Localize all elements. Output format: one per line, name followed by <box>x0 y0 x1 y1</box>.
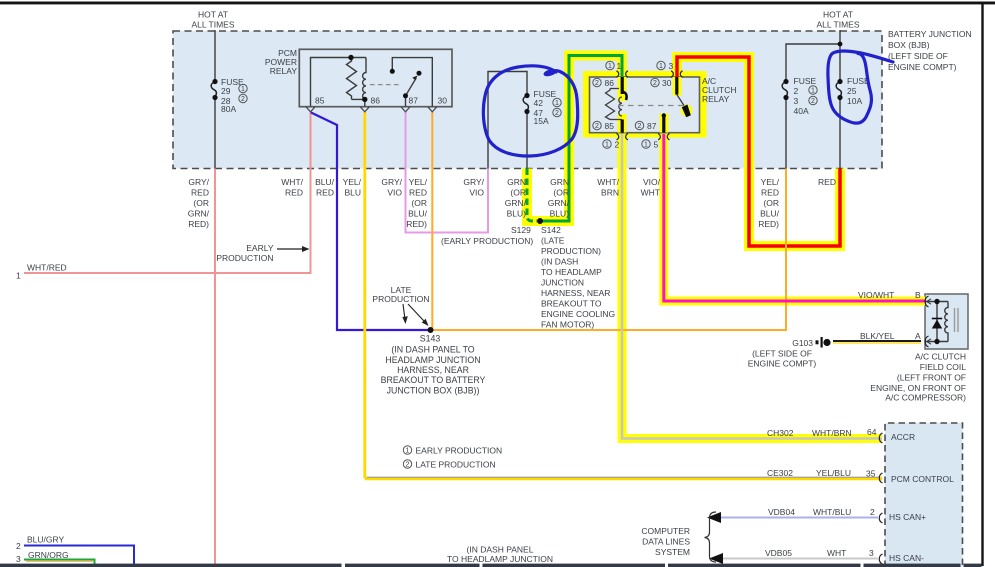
svg-text:2: 2 <box>653 80 657 87</box>
svg-text:ENGINE COMPT): ENGINE COMPT) <box>888 62 957 72</box>
wire: WHT VDB05 to HS CAN- <box>722 558 878 560</box>
relay K2 A/C clutch relay internals <box>606 71 693 140</box>
node: fixed contact left <box>390 69 395 74</box>
resistor in relay K1 coil <box>347 58 357 99</box>
wire: red RED fuse 25 to A/C relay pin 3 <box>677 57 840 246</box>
highlight: green wire path fuse42 to A/C relay pin 1 <box>527 56 622 222</box>
wire: GRN/ORG circuit 3 <box>24 560 95 565</box>
svg-text:(LEFT FRONT OF: (LEFT FRONT OF <box>897 373 966 383</box>
inductor in relay K1 coil <box>363 58 366 100</box>
svg-text:A: A <box>915 331 921 341</box>
svg-text:BRN: BRN <box>601 188 619 198</box>
svg-text:HS CAN+: HS CAN+ <box>889 512 926 522</box>
svg-text:GRN: GRN <box>507 177 526 187</box>
wire: YEL/RED (OR BLU/RED) from PCM relay pin 30 to S143 to fuse 2/3 <box>431 112 433 331</box>
svg-text:RED: RED <box>761 188 779 198</box>
wire: pin 30 internal to fixed contact <box>392 58 432 107</box>
svg-text:86: 86 <box>371 96 381 106</box>
svg-text:HARNESS, NEAR: HARNESS, NEAR <box>397 365 469 375</box>
svg-text:YEL/BLU: YEL/BLU <box>816 468 851 478</box>
svg-text:85: 85 <box>315 96 325 106</box>
svg-text:1: 1 <box>605 142 609 149</box>
svg-text:VIO: VIO <box>469 188 484 198</box>
battery junction box BJB (dashed, light blue) <box>173 31 882 169</box>
svg-text:(OR: (OR <box>553 188 569 198</box>
svg-text:GRY/: GRY/ <box>188 177 209 187</box>
svg-text:2: 2 <box>555 110 559 117</box>
fuse F25 element <box>836 82 841 98</box>
svg-text:(LEFT SIDE OF: (LEFT SIDE OF <box>752 349 812 359</box>
svg-text:HOT AT: HOT AT <box>823 10 853 20</box>
svg-text:1: 1 <box>555 100 559 107</box>
svg-text:BLU/: BLU/ <box>408 209 428 219</box>
svg-text:BLU/: BLU/ <box>315 177 335 187</box>
svg-text:GRY/: GRY/ <box>381 177 402 187</box>
svg-text:WHT/: WHT/ <box>597 177 619 187</box>
svg-text:GRN/: GRN/ <box>548 198 570 208</box>
svg-text:42: 42 <box>534 98 544 108</box>
svg-text:RED: RED <box>316 188 334 198</box>
wire: hot feed into fuse 25 <box>839 30 841 81</box>
svg-text:WHT/BLU: WHT/BLU <box>813 507 851 517</box>
fuse F29 terminals <box>212 79 217 84</box>
svg-text:BLU): BLU) <box>507 209 527 219</box>
pin 1/86 stub <box>621 77 624 94</box>
wire: GRN (OR GRN/BLU) dashed early production from fuse 42 to S142 <box>527 169 537 222</box>
node: hot bus junction <box>838 42 843 47</box>
svg-text:RED): RED) <box>406 219 427 229</box>
switch arm arrowhead K2 (bold) <box>682 105 691 118</box>
svg-text:30: 30 <box>438 96 448 106</box>
svg-text:1: 1 <box>406 448 410 455</box>
svg-text:BREAKOUT TO: BREAKOUT TO <box>541 299 602 309</box>
arrow: VDB05 direction triangle <box>709 553 723 564</box>
svg-text:PRODUCTION): PRODUCTION) <box>541 246 601 256</box>
svg-text:YEL/: YEL/ <box>409 177 428 187</box>
arrow: early production pointer <box>277 248 303 250</box>
svg-text:1: 1 <box>16 271 21 281</box>
svg-text:BLU): BLU) <box>550 209 570 219</box>
highlight: red wire path fuse25 to A/C relay pin 3 <box>677 57 840 246</box>
svg-text:JUNCTION: JUNCTION <box>541 278 584 288</box>
wire: fuse 2/3 bottom stub <box>785 98 787 169</box>
pin 3/30 stub <box>675 77 678 95</box>
svg-text:RELAY: RELAY <box>270 66 298 76</box>
svg-text:VIO/: VIO/ <box>643 177 661 187</box>
wire: hot feed bus to fuse 2/3 <box>786 44 840 81</box>
svg-text:(EARLY PRODUCTION): (EARLY PRODUCTION) <box>441 236 533 246</box>
svg-text:ENGINE COOLING: ENGINE COOLING <box>541 309 615 319</box>
node: fixed contact right <box>417 71 422 76</box>
node: switch pivot pin 87 <box>403 93 408 98</box>
svg-text:86: 86 <box>605 78 615 88</box>
ground G103 symbol <box>816 337 831 348</box>
svg-text:SYSTEM: SYSTEM <box>655 547 690 557</box>
svg-text:(OR: (OR <box>763 198 779 208</box>
svg-text:TO HEADLAMP JUNCTION: TO HEADLAMP JUNCTION <box>447 554 553 564</box>
svg-text:BOX (BJB): BOX (BJB) <box>888 40 930 50</box>
svg-text:RED: RED <box>285 188 303 198</box>
splice S143 <box>428 327 434 333</box>
svg-text:HS CAN-: HS CAN- <box>889 553 924 563</box>
fuse F25 terminals <box>837 79 842 84</box>
svg-text:EARLY PRODUCTION: EARLY PRODUCTION <box>416 446 503 456</box>
pen circle around fuse 42 <box>483 66 577 156</box>
svg-text:(OR: (OR <box>411 198 427 208</box>
connector arcs at ACCR box pins <box>879 433 882 564</box>
actuation dashed line K2 <box>618 105 686 107</box>
svg-text:RED: RED <box>818 177 836 187</box>
brace: computer data lines system <box>705 512 717 562</box>
svg-text:2: 2 <box>794 86 799 96</box>
svg-text:VDB05: VDB05 <box>765 548 792 558</box>
pin arrows K1 (85 86 87 30) <box>306 107 437 112</box>
wire: WHT/BLU VDB04 to HS CAN+ <box>720 517 878 519</box>
connector arcs pins B and A <box>925 296 928 307</box>
wire: pin 87 internal stub <box>405 98 407 107</box>
svg-text:BLU/: BLU/ <box>760 209 780 219</box>
svg-text:(IN DASH: (IN DASH <box>541 257 578 267</box>
svg-text:30: 30 <box>662 78 672 88</box>
svg-text:2: 2 <box>16 541 21 551</box>
svg-text:2: 2 <box>595 80 599 87</box>
svg-text:GRN/: GRN/ <box>505 198 527 208</box>
highlight: WHT/BRN wire path A/C relay pin 2 to ACCR <box>622 134 882 439</box>
svg-text:S143: S143 <box>420 334 441 344</box>
coil top hook <box>622 92 626 101</box>
svg-text:1: 1 <box>617 61 622 71</box>
svg-text:64: 64 <box>867 427 877 437</box>
svg-text:2: 2 <box>595 123 599 130</box>
svg-text:A/C CLUTCH: A/C CLUTCH <box>915 352 966 362</box>
svg-text:15A: 15A <box>534 116 549 126</box>
svg-text:ALL TIMES: ALL TIMES <box>817 20 860 30</box>
svg-text:5: 5 <box>654 140 659 150</box>
yellow fill behind pin stubs <box>618 77 693 133</box>
wire: fuse 42 bottom stub <box>526 112 528 169</box>
svg-text:25: 25 <box>847 86 857 96</box>
pin 2/85 stub <box>621 120 624 133</box>
wire: BLU/RED from PCM relay pin 85 to S143 <box>311 113 429 331</box>
svg-text:VDB04: VDB04 <box>768 507 795 517</box>
wire: BLU/GRY circuit 2 <box>24 546 134 565</box>
A/C clutch field coil box <box>925 294 968 349</box>
svg-text:40A: 40A <box>794 106 809 116</box>
svg-text:10A: 10A <box>847 96 862 106</box>
svg-text:WHT: WHT <box>641 188 660 198</box>
wire: GRY/VIO early production U from PCM relay pin 87 <box>406 112 489 233</box>
svg-text:87: 87 <box>409 96 419 106</box>
fuse F42 element <box>523 96 528 112</box>
svg-text:1: 1 <box>811 88 815 95</box>
wire: GRY/RED (OR GRN/RED) from fuse 29 down <box>214 169 216 565</box>
svg-text:PCM CONTROL: PCM CONTROL <box>891 474 954 484</box>
svg-text:(IN DASH PANEL TO: (IN DASH PANEL TO <box>391 345 474 355</box>
svg-text:FIELD COIL: FIELD COIL <box>920 362 967 372</box>
wire: pin 85 internal to coil top <box>311 58 367 107</box>
svg-text:BLK/YEL: BLK/YEL <box>860 331 895 341</box>
svg-text:FAN MOTOR): FAN MOTOR) <box>541 320 594 330</box>
svg-text:WHT: WHT <box>827 548 846 558</box>
clutch coil winding <box>945 302 948 342</box>
svg-text:WHT/BRN: WHT/BRN <box>812 428 852 438</box>
relay K1 PCM power relay box <box>299 49 452 106</box>
fuse F2/3 terminals <box>783 79 788 84</box>
svg-text:S142: S142 <box>541 225 561 235</box>
node: coil bottom junction <box>362 97 367 102</box>
svg-text:BREAKOUT TO BATTERY: BREAKOUT TO BATTERY <box>381 375 486 385</box>
wire: VIO/WHT from A/C relay pin 5 to field coil pin B <box>664 134 925 301</box>
svg-text:87: 87 <box>647 121 657 131</box>
A/C clutch relay U2 yellow body <box>583 71 707 138</box>
svg-text:GRN: GRN <box>550 177 569 187</box>
svg-text:3: 3 <box>794 96 799 106</box>
svg-text:VIO/WHT: VIO/WHT <box>858 290 894 300</box>
svg-text:A/C COMPRESSOR): A/C COMPRESSOR) <box>885 393 966 403</box>
wire: WHT/RED circuit 1 horizontal + up to PCM relay pin 85 <box>24 112 311 273</box>
resistor in relay K2 coil <box>606 89 615 120</box>
svg-text:LATE PRODUCTION: LATE PRODUCTION <box>416 460 496 470</box>
svg-text:COMPUTER: COMPUTER <box>641 526 690 536</box>
coil top/bottom rails <box>610 88 619 90</box>
circled production numbers <box>239 61 817 470</box>
svg-text:JUNCTION BOX (BJB)): JUNCTION BOX (BJB)) <box>387 386 480 396</box>
node: coil top junction <box>348 55 353 60</box>
svg-text:HARNESS, NEAR: HARNESS, NEAR <box>541 288 610 298</box>
arrows: late production pointers <box>403 304 405 318</box>
svg-text:S129: S129 <box>511 225 531 235</box>
svg-text:PRODUCTION: PRODUCTION <box>372 294 429 304</box>
diode D1 <box>932 320 942 329</box>
svg-text:G103: G103 <box>792 338 813 348</box>
svg-text:RED: RED <box>191 188 209 198</box>
svg-text:(IN DASH PANEL: (IN DASH PANEL <box>467 545 534 555</box>
switch arm in relay K1 <box>406 78 417 96</box>
svg-text:GRY/: GRY/ <box>463 177 484 187</box>
svg-text:29: 29 <box>221 86 231 96</box>
svg-text:BATTERY JUNCTION: BATTERY JUNCTION <box>888 29 972 39</box>
svg-text:ACCR: ACCR <box>891 432 915 442</box>
svg-text:CE302: CE302 <box>767 468 793 478</box>
svg-text:BLU/GRY: BLU/GRY <box>27 535 64 545</box>
svg-text:GRN/: GRN/ <box>188 209 210 219</box>
svg-text:TO HEADLAMP: TO HEADLAMP <box>541 267 602 277</box>
PCM/ACCR module box (dashed, light blue, right side) <box>885 423 963 567</box>
field coil L1 internals <box>925 296 958 347</box>
actuation dashed line K1 <box>370 84 399 86</box>
svg-text:GRN/ORG: GRN/ORG <box>28 550 69 560</box>
wire: coil bottom to pin 86 <box>352 99 365 106</box>
wire: GRN solid late production from S142 to A/C relay pin 1 <box>540 56 622 222</box>
wire: BLK/YEL from G103 to field coil pin A <box>833 340 921 342</box>
inductor in relay K2 coil <box>619 97 622 116</box>
svg-text:2: 2 <box>870 507 875 517</box>
pen circle around fuse 25 <box>828 51 893 123</box>
svg-text:VIO: VIO <box>387 188 402 198</box>
svg-text:RED): RED) <box>188 219 209 229</box>
connector arcs at relay pins <box>617 71 683 140</box>
svg-text:3: 3 <box>869 548 874 558</box>
fuse F42 terminals <box>524 93 529 98</box>
svg-text:2: 2 <box>241 96 245 103</box>
wire: hot feed into fuse 29 <box>214 30 216 81</box>
svg-text:(OR: (OR <box>193 198 209 208</box>
switch arm arrowhead K1 <box>412 76 417 81</box>
wire: fuse 42 top loop to GRY/VIO drop <box>488 72 527 169</box>
svg-text:CH302: CH302 <box>767 428 794 438</box>
svg-text:HOT AT: HOT AT <box>198 10 228 20</box>
fuse F29 element <box>211 82 216 98</box>
svg-text:2: 2 <box>638 123 642 130</box>
svg-text:3: 3 <box>16 554 21 564</box>
wire: fuse 29 to BJB bottom <box>214 98 216 169</box>
page top bar <box>0 2 995 5</box>
svg-text:(LEFT SIDE OF: (LEFT SIDE OF <box>888 51 948 61</box>
svg-text:(OR: (OR <box>510 188 526 198</box>
wire: fuse 25 to red wire <box>839 98 841 169</box>
svg-text:WHT/RED: WHT/RED <box>27 263 67 273</box>
svg-text:2: 2 <box>811 98 815 105</box>
svg-text:RELAY: RELAY <box>702 94 730 104</box>
svg-text:WHT/: WHT/ <box>281 177 303 187</box>
svg-text:2: 2 <box>615 140 620 150</box>
page bottom bar segments <box>0 564 982 567</box>
svg-text:ALL TIMES: ALL TIMES <box>192 20 235 30</box>
wire: WHT/BRN from A/C relay pin 2 to CH302 ACCR <box>622 134 882 439</box>
svg-text:BLU: BLU <box>344 188 361 198</box>
svg-text:3: 3 <box>669 61 674 71</box>
highlight: VIO/WHT wire path A/C relay pin 5 to field coil <box>664 134 925 301</box>
svg-text:2: 2 <box>406 462 410 469</box>
coil core lines <box>955 308 959 332</box>
svg-text:80A: 80A <box>221 104 236 114</box>
svg-text:(LATE: (LATE <box>541 236 565 246</box>
svg-text:RED): RED) <box>758 219 779 229</box>
svg-text:EARLY: EARLY <box>246 243 274 253</box>
svg-text:RED: RED <box>409 188 427 198</box>
svg-text:YEL/: YEL/ <box>761 177 780 187</box>
svg-text:B: B <box>915 290 921 300</box>
svg-text:HEADLAMP JUNCTION: HEADLAMP JUNCTION <box>385 355 480 365</box>
arrow: VDB04 direction triangle <box>707 512 721 523</box>
svg-text:35: 35 <box>866 469 876 479</box>
svg-text:YEL/: YEL/ <box>343 177 362 187</box>
switch arm K2 <box>677 95 684 106</box>
wire: YEL/BLU from PCM relay pin 86 down to CE302 PCM CONTROL <box>363 112 366 479</box>
svg-text:ENGINE, ON FRONT OF: ENGINE, ON FRONT OF <box>870 383 966 393</box>
svg-text:1: 1 <box>241 86 245 93</box>
svg-text:1: 1 <box>608 63 612 70</box>
svg-text:ENGINE COMPT): ENGINE COMPT) <box>748 359 817 369</box>
svg-text:DATA LINES: DATA LINES <box>642 537 690 547</box>
svg-text:85: 85 <box>605 121 615 131</box>
splice S142 <box>537 218 543 224</box>
pin 5/87 stub <box>662 116 665 133</box>
page right border <box>981 2 983 566</box>
svg-text:PRODUCTION: PRODUCTION <box>216 253 273 263</box>
fuse F2/3 element <box>782 82 787 98</box>
svg-text:FUSE: FUSE <box>794 76 817 86</box>
svg-text:1: 1 <box>659 63 663 70</box>
svg-text:1: 1 <box>644 142 648 149</box>
text labels <box>192 10 972 127</box>
